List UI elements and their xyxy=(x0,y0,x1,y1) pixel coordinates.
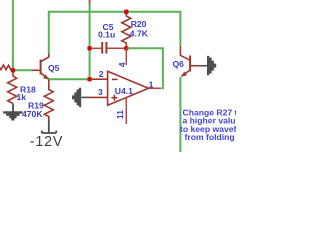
ground arrow Q6 base xyxy=(207,56,216,75)
transistor Q5 xyxy=(32,54,49,80)
resistor R18 xyxy=(8,72,17,103)
supply -12V xyxy=(42,121,57,133)
resistor R19 xyxy=(44,80,53,121)
svg-text:4: 4 xyxy=(117,62,127,67)
wire top rail xyxy=(49,12,181,54)
svg-text:Q5: Q5 xyxy=(48,63,60,73)
transistor Q6 xyxy=(180,46,199,77)
svg-text:from folding: from folding xyxy=(185,132,235,142)
wire stub red top xyxy=(89,0,91,3)
node base junction xyxy=(11,68,15,72)
svg-text:3: 3 xyxy=(98,87,103,97)
resistor R20 xyxy=(122,13,131,49)
node R20 top junction xyxy=(124,10,128,14)
svg-text:U4.1: U4.1 xyxy=(115,86,133,96)
wire Q5 emitter to pin2 xyxy=(49,78,90,80)
wire pin3 grey stem xyxy=(82,96,91,98)
wire mid vertical xyxy=(89,3,91,80)
svg-text:R20: R20 xyxy=(131,19,147,29)
ground symbol xyxy=(3,111,22,120)
svg-text:-12V: -12V xyxy=(30,134,63,150)
wire Q6 base grey stem xyxy=(199,65,208,67)
wire Q5 base horizontal xyxy=(13,69,32,71)
node pin2 junction xyxy=(87,77,91,81)
capacitor C5 xyxy=(91,42,124,54)
op-amp U4.1 xyxy=(90,48,161,124)
svg-text:1: 1 xyxy=(149,79,154,89)
svg-text:470K: 470K xyxy=(22,109,43,119)
wire feedback right xyxy=(128,48,163,89)
svg-text:1k: 1k xyxy=(17,92,27,102)
svg-text:Q6: Q6 xyxy=(173,59,185,69)
svg-text:11: 11 xyxy=(115,110,125,119)
node R20 bottom junction xyxy=(124,46,128,50)
ground arrow pin3 xyxy=(72,88,81,107)
svg-text:0.1u: 0.1u xyxy=(98,30,115,40)
ground R18 xyxy=(12,104,14,112)
svg-text:2: 2 xyxy=(99,69,104,79)
svg-text:4.7K: 4.7K xyxy=(130,29,149,39)
resistor horizontal clipped at left edge xyxy=(0,65,13,70)
wire left vertical xyxy=(12,0,14,70)
wire Q6 emitter down xyxy=(179,77,181,152)
node C5 left junction xyxy=(87,46,91,50)
